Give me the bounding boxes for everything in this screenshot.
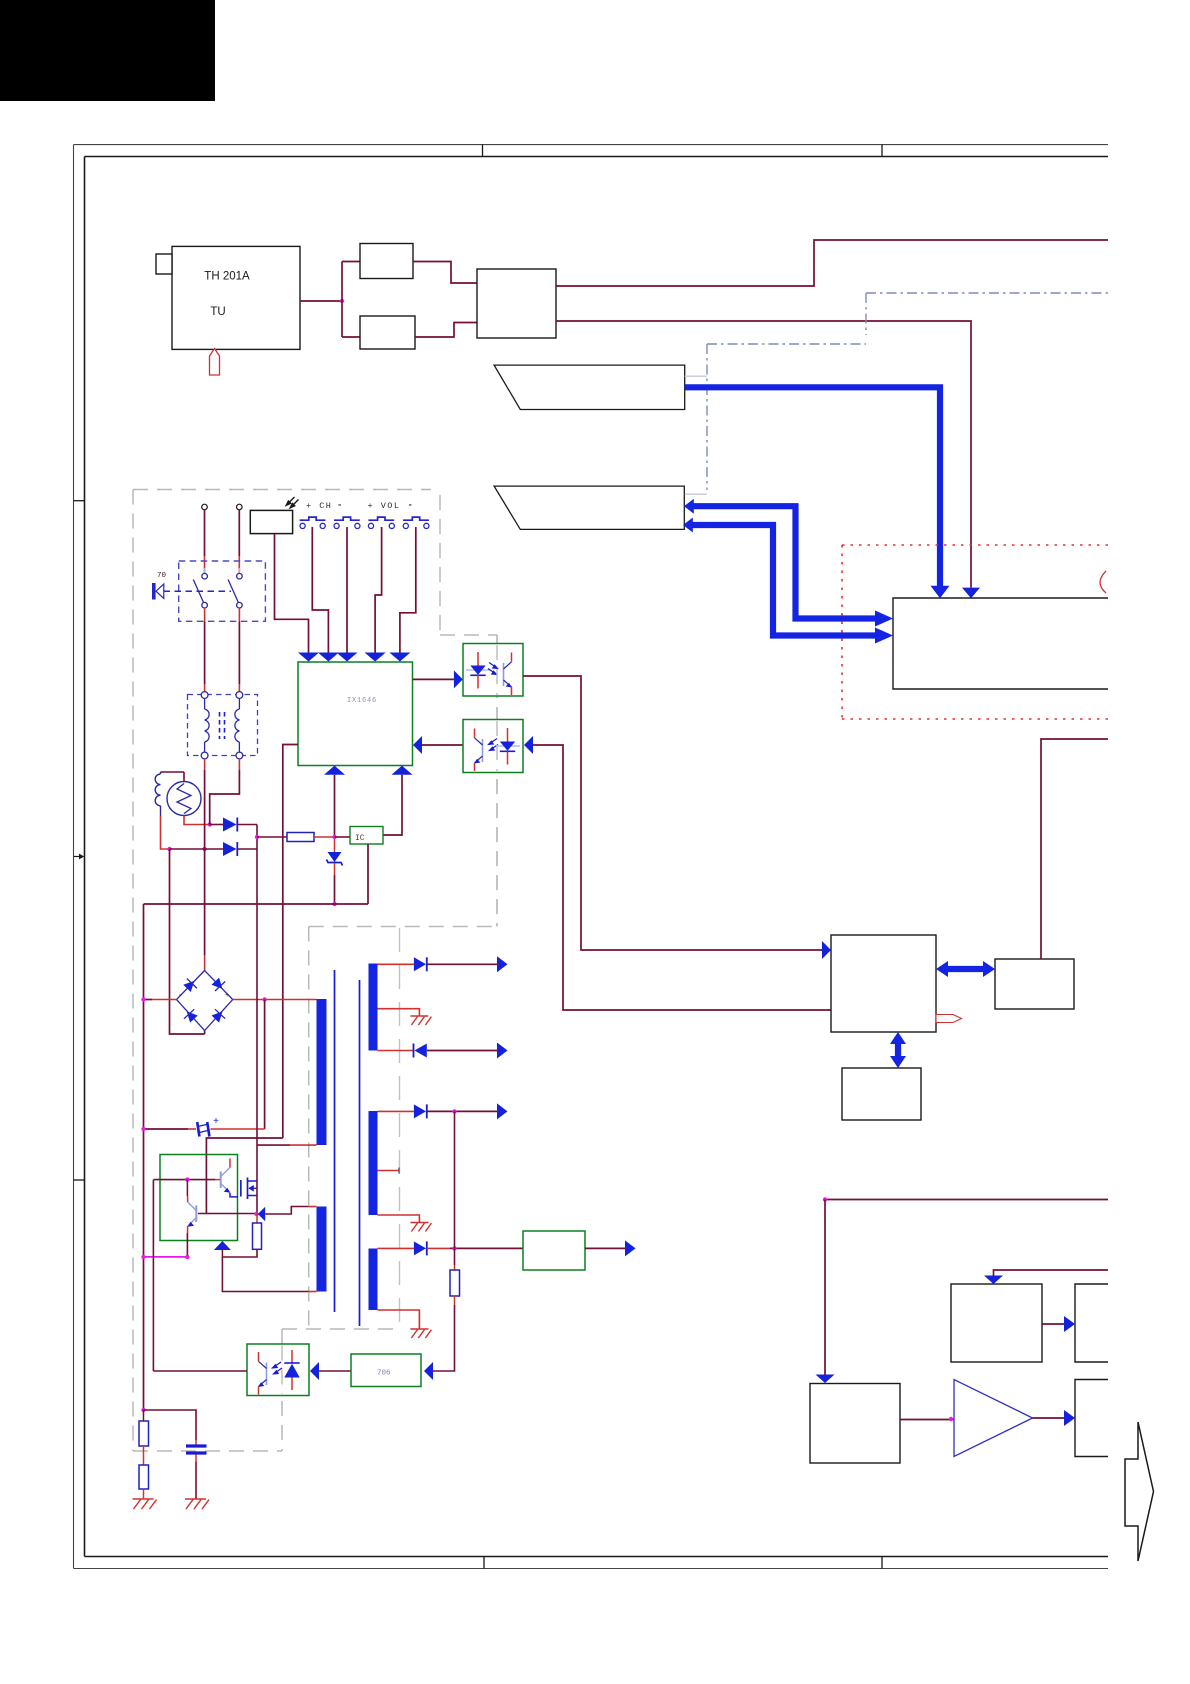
bus deflection to CRT lower [693, 525, 877, 636]
diode D4 (up) [214, 1241, 231, 1250]
IC output wire to opto1 [413, 678, 454, 680]
wire to IF box1 [342, 261, 360, 263]
wire opto3 output left [153, 1370, 247, 1372]
bridge diode NW [182, 976, 199, 993]
wire cap to ground [195, 1455, 197, 1463]
degauss top wire [161, 772, 185, 782]
rectified node vertical [256, 825, 258, 850]
node diode mid tap [255, 835, 259, 839]
wire audio rail top [825, 1199, 1108, 1201]
frame tick left y=500 [74, 500, 85, 502]
wire D2 cathode [237, 848, 257, 850]
black title block top-left [0, 0, 215, 101]
node B- bridge junction [141, 997, 145, 1001]
SMPS transformer core line 1 [334, 970, 336, 1312]
filter green box [523, 1231, 585, 1270]
wire SW4 to IC pin5 [400, 527, 416, 653]
svg-text:TU: TU [210, 306, 225, 318]
arrow into micro box top (from box3) [962, 588, 980, 599]
main filter capacitor [144, 1128, 189, 1130]
dashed boundary bottom edge [133, 1450, 282, 1452]
node B+ junction [262, 997, 266, 1001]
isolation barrier dashed line [399, 928, 401, 1326]
bridge diode SW [182, 1007, 199, 1024]
opto3 internals LED (up) [284, 1350, 299, 1390]
wire secondary2 top to D7 [378, 1110, 414, 1112]
wire SW1 to IC pin2 [312, 527, 328, 653]
CRT parallelogram 1 [494, 365, 685, 409]
wire resistor to node [314, 836, 335, 838]
frame outer border [74, 145, 1109, 1569]
magenta link Q2 emitter to B- rail [144, 1256, 188, 1258]
wire box A to amp [900, 1419, 954, 1421]
opto1 internals phototransistor [504, 653, 512, 696]
transformer primary coil [205, 698, 210, 752]
frame inner border [85, 157, 1109, 1557]
svg-text:IC: IC [355, 834, 365, 843]
node ground rail junction [332, 902, 336, 906]
arrow into opto2 right [524, 736, 533, 754]
CRT parallelogram 2 [494, 486, 684, 529]
wire cap right to B+ [211, 1128, 265, 1130]
posistor circle [167, 782, 201, 816]
bridge diode SE [210, 1007, 227, 1024]
bus arrow into deflection box left lower [875, 628, 893, 644]
dashed boundary jog to opto column [440, 634, 497, 636]
SMPS transformer core line 2 [359, 980, 361, 1326]
IC bottom arrow pin (left) [324, 766, 345, 775]
node transformer drop junction [202, 847, 206, 851]
output arrow 4 [625, 1240, 636, 1256]
bus arrow into deflection box top [931, 586, 950, 599]
wire R sense bottom [454, 1296, 456, 1305]
opto2 internals LED [496, 728, 520, 765]
input terminal N circle [237, 504, 243, 510]
dashed boundary opto column vertical [496, 635, 498, 927]
wire SW3 to IC pin4 [375, 527, 382, 653]
wire opto1 output [523, 676, 822, 950]
wire relay2 to transformer [238, 608, 240, 621]
svg-text:-: - [178, 992, 182, 1000]
feedback wire opto3 vertical [152, 1180, 154, 1371]
dash-dot line horizontal mid [707, 343, 866, 345]
node audio rail [823, 1197, 827, 1201]
wire D3 to primary2 top [265, 1207, 308, 1215]
box3 video detector [477, 269, 556, 338]
wire terminal L down to relay [204, 510, 206, 556]
output arrow 2 [497, 1043, 508, 1059]
opto2 internals emission arrows [489, 739, 499, 751]
zener lead bottom [334, 863, 336, 875]
pushbutton SW2 (CH-) [334, 517, 360, 520]
bus micro to memory (bidirectional) [946, 966, 985, 972]
wire return to primary2 bottom [222, 1257, 308, 1292]
bridge rectifier diamond [177, 971, 233, 1031]
frame tick top x=482 [482, 145, 484, 157]
speaker box D (clipped right) [1075, 1380, 1108, 1457]
wire tuner output [300, 300, 342, 302]
reset box [842, 1068, 921, 1120]
dashed boundary secondary box left [308, 927, 310, 1330]
wire SW2 to IC pin3 [346, 527, 348, 653]
optocoupler U2 box [463, 720, 523, 773]
dash-dot line vertical upper [865, 293, 867, 335]
bus video to deflection [685, 387, 940, 586]
relay contact 2 [238, 568, 240, 573]
wire amp to box D [1033, 1417, 1065, 1419]
SMPS transformer secondary winding 1 [369, 964, 378, 1051]
diode D1 [223, 818, 237, 832]
wire box B to box C [1042, 1323, 1064, 1325]
frame tick bottom x=484 [483, 1557, 485, 1569]
wire Q2 collector up to Q1 base [186, 1180, 188, 1196]
arrow into reg box [822, 941, 831, 959]
wire divider to cap branch [144, 1410, 197, 1440]
transformer secondary coil [235, 698, 240, 752]
opto2 internals phototransistor [474, 729, 482, 772]
SMPS transformer secondary winding 2 [369, 1111, 378, 1215]
svg-text:706: 706 [377, 1370, 391, 1378]
arrow into box C [1064, 1316, 1075, 1332]
dashed boundary main PWB (gray) top edge [133, 489, 431, 491]
node sense junction [452, 1246, 456, 1250]
zener lead top [334, 839, 336, 852]
wire secondary3 top to D8 [378, 1247, 414, 1249]
ground secondary3 [410, 1329, 431, 1338]
node cap left junction [141, 1127, 145, 1131]
arrow into 706 [424, 1362, 433, 1380]
arrow into IC right (from opto2) [413, 736, 422, 754]
ground secondary tap [410, 1016, 431, 1025]
svg-text:+: + [213, 1117, 219, 1128]
bus arrow into CRT p2 lower [683, 518, 693, 533]
tuner antenna stub box [156, 254, 172, 274]
svg-text:-: - [337, 501, 342, 511]
svg-text:-: - [408, 501, 413, 511]
node Q1 base / Q2 collector [185, 1177, 189, 1181]
output arrow 3 [497, 1103, 508, 1119]
IR remote beam icon [286, 497, 298, 508]
wire B+ down to cap [264, 1000, 266, 1130]
wire to resistor [257, 836, 287, 838]
relay contact 1 [204, 568, 206, 573]
opto1 internals LED [466, 652, 491, 689]
wire terminal N down to relay [238, 510, 240, 556]
frame tick left y=1180 [74, 1179, 85, 1181]
dashed boundary overlay through opto1 [496, 645, 498, 695]
arrow into audio box A [816, 1375, 835, 1384]
arrow into box D [1064, 1410, 1075, 1426]
transistor Q1 [221, 1159, 238, 1197]
diode D8 [414, 1241, 426, 1255]
IR receiver box [250, 510, 292, 533]
diode D2 [223, 842, 237, 856]
zener diode [328, 852, 342, 862]
svg-text:+: + [225, 992, 229, 1000]
wire D6 to output arrow [427, 1050, 497, 1052]
error amp 706 box [351, 1354, 421, 1387]
optocoupler U3 box [247, 1344, 309, 1396]
relay mech link dashed [164, 590, 232, 592]
wire IC pin left-bottom [283, 745, 298, 1139]
wire D1 anode [210, 824, 223, 826]
wire Q2 base to snubber node [198, 1213, 257, 1215]
input terminal L circle [202, 504, 208, 510]
svg-text:TH 201A: TH 201A [204, 271, 250, 283]
dashed boundary secondary box top [309, 926, 497, 928]
svg-text:IX1646: IX1646 [347, 697, 377, 705]
wire from right edge to memory box [1041, 739, 1108, 959]
wire sense vertical [454, 1111, 456, 1265]
pushbutton SW4 (VOL-) [403, 517, 429, 520]
standby transformer box (dashed) [188, 695, 258, 756]
bus deflection to CRT upper [694, 506, 877, 618]
transformer terminal circles [201, 692, 208, 699]
diode D6 (reversed) [413, 1044, 415, 1058]
wire D8 to filter box [427, 1247, 450, 1249]
resistor R sense [450, 1270, 460, 1296]
resistor R source [256, 1214, 258, 1223]
wire standby transformer left leg down [204, 759, 206, 770]
wire AC1 down to bridge [170, 849, 205, 1034]
wire IC bottom left to zener node [334, 775, 336, 837]
memory box [995, 959, 1074, 1009]
arrow into opto1 [454, 670, 463, 688]
wire sound IF from right [994, 1270, 1109, 1276]
opto3 internals phototransistor [258, 1352, 266, 1395]
node snubber junction [254, 1212, 258, 1216]
wire box3 out B down to micro box [556, 321, 971, 588]
tuner TH 201A box [172, 246, 300, 349]
IC input arrows top [298, 653, 319, 662]
SMPS transformer primary winding 1 [317, 999, 327, 1145]
fuse symbol (red) below tuner [210, 349, 220, 376]
red dotted region deflection [842, 545, 1108, 719]
deflection box (clipped right) [893, 598, 1108, 689]
diode D5 [414, 957, 426, 971]
wire D2 anode [170, 848, 224, 850]
wire D1 cathode [237, 824, 257, 826]
ground divider [143, 1489, 145, 1499]
diode D3 snubber [258, 1207, 265, 1221]
dashed boundary secondary box bottom [282, 1328, 400, 1330]
node zener top [332, 835, 336, 839]
wire box1 to box3 [413, 262, 477, 284]
dash-dot line vertical mid [706, 344, 708, 490]
off-page connector arrow [1125, 1422, 1154, 1561]
pushbutton SW3 (VOL+) [368, 517, 394, 520]
wire drain rail [256, 849, 258, 1140]
transformer core dashes [219, 712, 221, 739]
dashed boundary main PWB left edge [132, 490, 134, 1452]
wire 706 to opto3 [319, 1370, 351, 1372]
sound box B [951, 1284, 1042, 1362]
SMPS transformer secondary winding 3 [369, 1249, 378, 1311]
dashed boundary overlay through opto3 [281, 1346, 283, 1395]
wire secondary1 tap to ground [378, 1009, 420, 1016]
wire bridge plus to primary [233, 999, 317, 1001]
ground secondary2 [410, 1223, 431, 1232]
wire node to IC reg [335, 836, 351, 838]
node divider junction [141, 1408, 145, 1412]
IF box1 [360, 244, 413, 279]
degauss bottom wire to D1 [184, 816, 210, 825]
IC bottom arrow pin (right) [392, 766, 413, 775]
svg-text:+ VOL: + VOL [368, 501, 401, 511]
ground rail horizontal [144, 844, 369, 904]
resistor divider R2 [143, 1446, 145, 1465]
resistor R standby [287, 833, 314, 842]
wire D7 to output arrow [427, 1110, 497, 1112]
wire resistor bottom to return [222, 1249, 257, 1257]
diode D7 [414, 1104, 426, 1118]
svg-text:70: 70 [157, 572, 167, 580]
wire error amp to opto2 [533, 745, 831, 1010]
wire IC bottom right to IC reg [383, 775, 402, 835]
capacitor C feedback [186, 1444, 207, 1447]
wire bridge minus to B- rail [152, 999, 177, 1001]
gray stub p2 [685, 493, 707, 495]
pushbutton SW1 (CH+) [300, 517, 326, 520]
wire AC2 down to bridge [204, 849, 206, 955]
gray stub p1 [685, 375, 707, 377]
node AC line junction [167, 847, 171, 851]
bus micro to reset (bidirectional vertical) [895, 1042, 901, 1058]
wire drain to primary bottom [257, 1144, 290, 1146]
audio box A [810, 1384, 900, 1464]
bridge diode NE [210, 976, 227, 993]
relay actuator symbol [152, 583, 156, 600]
wire audio rail down [824, 1200, 826, 1375]
wire filter to output arrow [585, 1247, 625, 1249]
dash-dot line horizontal upper [866, 292, 1108, 294]
svg-text:+ CH: + CH [306, 501, 332, 511]
frame tick top x=882 [881, 145, 883, 157]
frame tick bottom x=882 [881, 1557, 883, 1569]
audio amplifier triangle [954, 1380, 1033, 1457]
IC regulator box [350, 827, 383, 845]
SMPS transformer primary winding 2 [317, 1207, 327, 1292]
wire Q2 emitter down [186, 1233, 188, 1257]
wire IC pin feed down to Q2 base node [206, 1138, 282, 1214]
opto3 internals emission arrows [273, 1362, 283, 1374]
sound box C (clipped right) [1075, 1284, 1108, 1362]
node D7 output junction [452, 1109, 456, 1113]
red connector bracket at right edge [1100, 571, 1106, 593]
node junction at tuner split [340, 299, 344, 303]
main control IC IX1646 [298, 662, 413, 766]
dashed boundary overlay through opto2 [496, 721, 498, 771]
wire secondary2 mid tap [378, 1170, 400, 1172]
IF box2 [360, 316, 415, 349]
wire secondary3 bottom to ground [378, 1310, 420, 1329]
arrow into opto3 [310, 1362, 319, 1380]
transistor Q2 [188, 1196, 197, 1233]
wire IR receiver to IC pin1 [275, 534, 309, 653]
wire secondary2 bottom to ground [378, 1215, 420, 1223]
resistor divider R1 [143, 1410, 145, 1421]
wire secondary1 top to D5 [378, 963, 414, 965]
node amp input [949, 1417, 953, 1421]
degauss coil [155, 772, 160, 816]
wire relay1 to transformer [204, 608, 206, 621]
frame center arrow left y=856 [74, 854, 84, 860]
wire box3 out A to right edge [556, 240, 1108, 286]
wire split vertical [341, 262, 343, 338]
wire D5 to output arrow [427, 963, 497, 965]
wire secondary1 bottom to D6 [378, 1050, 414, 1052]
B- rail vertical long [143, 904, 145, 1410]
wire standby transformer right leg jog down [238, 759, 240, 770]
dashed boundary right edge upper [439, 495, 441, 634]
node degauss/AC junction [208, 822, 212, 826]
MOSFET Q3 [241, 1178, 257, 1200]
opto1 internals emission arrows [488, 663, 498, 675]
wire to IF box2 [342, 336, 360, 338]
wire box2 to box3 [415, 323, 477, 338]
drive transistors box [160, 1155, 238, 1241]
optocoupler U1 box [463, 644, 523, 697]
red pointer tag on micro box [936, 1015, 962, 1023]
micro/jungle box [831, 935, 936, 1032]
relay box (dashed) [179, 561, 266, 621]
output arrow 1 [497, 956, 508, 972]
arrow into box B [984, 1276, 1003, 1285]
wire Q1 base line [153, 1179, 215, 1181]
bus arrow into deflection box left upper [875, 611, 893, 627]
bus arrow into CRT p2 upper [684, 499, 694, 514]
degauss coil bottom to AC line [161, 816, 170, 849]
wire opto2 to IC [422, 744, 463, 746]
dashed boundary opto3 column [281, 1329, 283, 1451]
